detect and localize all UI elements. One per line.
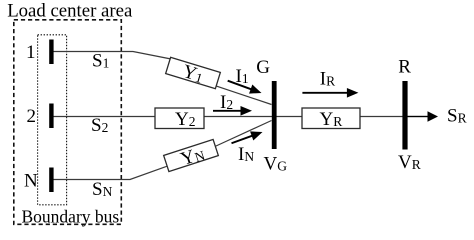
svg-text:N: N [24,171,38,192]
svg-text:G: G [256,57,270,78]
svg-text:1: 1 [26,42,36,63]
svg-text:Load center area: Load center area [7,0,133,21]
svg-text:Boundary bus: Boundary bus [22,206,120,226]
svg-text:R: R [398,57,411,78]
svg-text:2: 2 [27,106,37,127]
